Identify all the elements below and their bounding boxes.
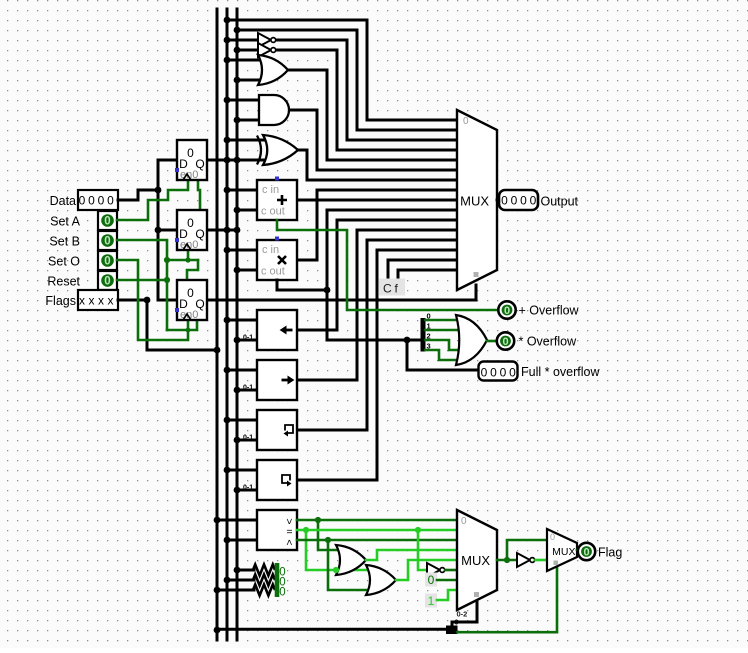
wire Flags to reg F D bbox=[118, 299, 147, 302]
svg-text:0: 0 bbox=[583, 547, 589, 559]
svg-text:Flag: Flag bbox=[598, 546, 622, 560]
wire pull common bar bbox=[275, 563, 280, 597]
node bus junction (237,490) bbox=[234, 487, 241, 494]
wire cmp gt branch to OR1b bbox=[318, 520, 340, 550]
wire NOT2 out to MUX in4 bbox=[276, 50, 456, 150]
wire reg F Q to MUX select bbox=[207, 299, 476, 302]
svg-text:c in: c in bbox=[262, 244, 279, 256]
multiplexer MUX-B bbox=[457, 510, 498, 619]
svg-text:+ Overflow: + Overflow bbox=[519, 304, 580, 318]
wire reg A pin2 to reg B top bbox=[198, 179, 200, 210]
node bus junction (227,230) bbox=[224, 227, 231, 234]
wire splitter bit1 bbox=[426, 329, 459, 332]
wire SHR out to MUX in12 bbox=[297, 230, 456, 380]
wire MUXC out bbox=[577, 550, 578, 551]
wire B to MUX in2 bbox=[237, 30, 456, 130]
svg-text:>: > bbox=[283, 518, 295, 524]
wire eq to NOT-b in bbox=[418, 530, 427, 570]
wire cmp eq to MUXB in2 bbox=[297, 529, 457, 532]
wire A to comparator B bbox=[227, 539, 257, 542]
wire Flags to F bus bbox=[147, 300, 217, 350]
wire F to comparator A bbox=[217, 519, 257, 522]
node bus junction (227,420) bbox=[224, 417, 231, 424]
wire B to ROL amount bbox=[237, 439, 257, 442]
svg-text:x: x bbox=[79, 294, 85, 308]
node bus junction (237,570) bbox=[234, 567, 241, 574]
output pin Flag bbox=[578, 543, 595, 560]
node bus junction (227,20) bbox=[224, 17, 231, 24]
svg-text:Set B: Set B bbox=[49, 235, 80, 249]
shifter SHL (shift left) bbox=[257, 310, 297, 350]
resistor pull R3 bbox=[253, 585, 275, 596]
svg-text:0: 0 bbox=[104, 256, 110, 268]
input pin Reset bbox=[98, 271, 117, 290]
svg-text:c out: c out bbox=[261, 206, 285, 218]
constant 0 bbox=[425, 573, 437, 587]
input pin Flags bbox=[78, 290, 118, 310]
wire A to SHL data bbox=[227, 319, 257, 322]
svg-text:Set O: Set O bbox=[48, 255, 80, 269]
node mult high tee bbox=[404, 337, 411, 344]
resistor pull R2 bbox=[253, 575, 275, 586]
node cmp gt tee bbox=[315, 517, 321, 523]
svg-text:0: 0 bbox=[490, 366, 497, 380]
node or1b input tee bbox=[333, 567, 339, 573]
svg-text:0: 0 bbox=[461, 516, 467, 527]
svg-text:c in: c in bbox=[262, 184, 279, 196]
node bus junction (227,540) bbox=[224, 537, 231, 544]
wire cmp gt to MUXB in1 bbox=[297, 519, 457, 522]
wire MUXB out bbox=[497, 559, 517, 562]
splitter S1 spine bbox=[421, 318, 426, 352]
node bus junction (237,440) bbox=[234, 437, 241, 444]
node bus junction (227,160) bbox=[224, 157, 231, 164]
svg-text:0: 0 bbox=[509, 366, 516, 380]
wire reg B clock riser bbox=[187, 251, 190, 260]
wire Data to registers D bbox=[118, 190, 158, 200]
wire MULT couthi to MUX in10 bbox=[327, 210, 456, 340]
or gate OR2b bbox=[366, 565, 396, 595]
node bus junction (227,250) bbox=[224, 247, 231, 254]
node bus junction (237,340) bbox=[234, 337, 241, 344]
svg-text:0-1: 0-1 bbox=[243, 335, 253, 342]
constant 1 bbox=[425, 594, 437, 608]
wire B to OR1 in2 bbox=[237, 79, 263, 82]
svg-text:C: C bbox=[383, 282, 392, 296]
wire A to SHR data bbox=[227, 369, 257, 372]
svg-text:Set A: Set A bbox=[50, 215, 81, 229]
node bus junction (227,40) bbox=[224, 37, 231, 44]
svg-text:0: 0 bbox=[104, 236, 110, 248]
wire B to AND1 in2 bbox=[237, 119, 260, 122]
wire NOT-b out to MUXB in6 bbox=[446, 569, 458, 572]
svg-text:x: x bbox=[108, 294, 114, 308]
wire OR1b out to MUXB in4 bbox=[366, 550, 457, 560]
wire cmp lt branch bbox=[328, 540, 368, 590]
and gate AND1 bbox=[259, 95, 289, 125]
output pin Output bbox=[499, 190, 538, 210]
wire ADD out to MUX in9 bbox=[297, 199, 456, 202]
svg-text:0-1: 0-1 bbox=[243, 385, 253, 392]
wire XOR1 out to MUX in7 bbox=[298, 150, 456, 180]
register A (D Q en0) bbox=[175, 140, 207, 181]
svg-text:Output: Output bbox=[541, 195, 579, 209]
node bus junction (237,270) bbox=[234, 267, 241, 274]
input pin Data bbox=[78, 190, 118, 210]
svg-text:0: 0 bbox=[187, 146, 194, 160]
node bus junction (237,210) bbox=[234, 207, 241, 214]
node bus junction (227,140) bbox=[224, 137, 231, 144]
inverter NOT2 bbox=[258, 43, 276, 57]
svg-text:MUX: MUX bbox=[461, 553, 490, 568]
splitter S2 blob bbox=[446, 626, 458, 635]
wire Set A to reg A clock bbox=[117, 181, 188, 220]
wire MULT cout join bbox=[277, 280, 327, 290]
inverter NOT-b bbox=[427, 563, 445, 577]
node bus junction (237,390) bbox=[234, 387, 241, 394]
wire A to OR1 in1 bbox=[227, 59, 263, 62]
wire SHL out to MUX in11 bbox=[297, 220, 456, 330]
wire bus B vertical (x=237) bbox=[236, 9, 239, 640]
svg-text:Flags: Flags bbox=[45, 294, 76, 308]
wire Set B branch to reg B clock bbox=[167, 259, 198, 262]
svg-text:0: 0 bbox=[88, 194, 95, 208]
svg-text:0-1: 0-1 bbox=[243, 485, 253, 492]
or gate OR-ovf bbox=[456, 315, 487, 365]
adder U-add bbox=[257, 177, 297, 221]
node green regB clock tee bbox=[185, 257, 190, 262]
output pin + Overflow bbox=[498, 301, 515, 318]
wire B to ROR amount bbox=[237, 489, 257, 492]
wire OR1 out to MUX in5 bbox=[288, 70, 456, 160]
comparator U-cmp bbox=[257, 510, 297, 550]
node bus junction (227,100) bbox=[224, 97, 231, 104]
wire select bus bottom bbox=[217, 628, 452, 631]
node D split reg A bbox=[155, 187, 162, 194]
wire A to ROR data bbox=[227, 469, 257, 472]
node mult cout junction bbox=[324, 287, 331, 294]
svg-text:0: 0 bbox=[500, 366, 507, 380]
svg-text:0: 0 bbox=[530, 194, 537, 208]
node bus junction (237,50) bbox=[234, 47, 241, 54]
register B (D Q en0) bbox=[175, 210, 207, 251]
multiplexer MUX-C bbox=[547, 529, 577, 571]
svg-text:0: 0 bbox=[98, 194, 105, 208]
wire D vertical bbox=[158, 160, 177, 300]
input pin Set A bbox=[98, 211, 117, 230]
wire mult high to Full overflow bbox=[407, 340, 479, 370]
wire const0 to MUXB in7 bbox=[437, 579, 457, 582]
node bus junction (237,120) bbox=[234, 117, 241, 124]
node bus junction (227,580) bbox=[224, 577, 231, 584]
wire reg A Q to bus and XOR1 in2 bbox=[207, 159, 265, 162]
wire bus F vertical (x=217) bbox=[216, 9, 219, 640]
svg-text:<: < bbox=[283, 539, 295, 545]
register F (D Q en0) bbox=[175, 280, 207, 321]
node bus junction (227,320) bbox=[224, 317, 231, 324]
svg-text:c out: c out bbox=[261, 266, 285, 278]
wire MUXB select bbox=[452, 601, 477, 629]
svg-text:=: = bbox=[286, 526, 292, 538]
wire B to ADD in2 bbox=[237, 209, 257, 212]
or gate OR1 bbox=[258, 55, 288, 85]
svg-text:0: 0 bbox=[279, 587, 285, 599]
multiplier U-mult bbox=[257, 237, 297, 281]
svg-text:0: 0 bbox=[502, 336, 508, 348]
node green regF clock tee bbox=[186, 328, 191, 333]
wire NOT-c out to MUXC in2 bbox=[536, 559, 548, 562]
wire A to XOR1 in1 bbox=[227, 139, 265, 142]
svg-text:x: x bbox=[89, 294, 95, 308]
xor gate XOR1 bbox=[257, 135, 298, 165]
svg-text:x: x bbox=[98, 294, 104, 308]
wire reg B Q to bus bbox=[207, 229, 237, 232]
node cmp lt tee bbox=[325, 537, 331, 543]
svg-text:0: 0 bbox=[504, 305, 510, 317]
svg-text:MUX: MUX bbox=[460, 194, 489, 209]
wire OR2b out to MUXB in5 bbox=[396, 560, 457, 580]
wire F to pull resistor 3 bbox=[217, 589, 254, 592]
node bus junction (227,470) bbox=[224, 467, 231, 474]
svg-text:Full * overflow: Full * overflow bbox=[521, 365, 600, 379]
multiplexer MUX-A bbox=[457, 110, 497, 290]
wire splitter bit2 bbox=[426, 340, 459, 350]
inverter NOT1 bbox=[258, 33, 276, 47]
wire B to SHL amount bbox=[237, 339, 257, 342]
wire A to ADD in1 bbox=[227, 189, 257, 192]
node flags split bbox=[144, 297, 151, 304]
svg-text:0: 0 bbox=[511, 194, 518, 208]
wire const1 to MUXB in8 bbox=[437, 590, 457, 600]
wire A to NOT1 in bbox=[227, 39, 258, 42]
svg-text:0: 0 bbox=[79, 194, 86, 208]
input pin Set B bbox=[98, 231, 117, 250]
svg-text:0: 0 bbox=[107, 194, 114, 208]
svg-text:0-2: 0-2 bbox=[457, 610, 468, 619]
svg-text:0: 0 bbox=[481, 366, 488, 380]
node muxb out tee bbox=[504, 557, 510, 563]
wire B to NOT2 in bbox=[237, 49, 258, 52]
shifter ROR (rotate right) bbox=[257, 460, 297, 500]
node bus junction (227,60) bbox=[224, 57, 231, 64]
svg-text:0: 0 bbox=[187, 286, 194, 300]
wire snake to reg F top bbox=[187, 260, 198, 280]
svg-text:0: 0 bbox=[550, 532, 555, 542]
node bus junction (227,370) bbox=[224, 367, 231, 374]
wire MULT out to MUX in8 bbox=[297, 190, 456, 260]
wire branch to MUXC in1 bbox=[507, 540, 547, 560]
output pin * Overflow bbox=[497, 332, 514, 349]
wire A to AND1 in1 bbox=[227, 99, 260, 102]
svg-text:Reset: Reset bbox=[47, 275, 80, 289]
resistor pull R1 bbox=[253, 565, 275, 576]
node green SetB junction bbox=[164, 257, 170, 263]
wire reg B D stub bbox=[158, 229, 177, 232]
svg-text:0: 0 bbox=[463, 116, 469, 127]
wire MUXC select bbox=[458, 566, 558, 632]
shifter SHR (shift right) bbox=[257, 360, 297, 400]
svg-text:0: 0 bbox=[455, 620, 459, 627]
wire reg A D stub bbox=[158, 159, 177, 162]
wire OR-ovf out bbox=[487, 340, 496, 343]
wire tunnel f to MUX in16 bbox=[398, 270, 456, 281]
node green Reset junction bbox=[164, 277, 170, 283]
wire A to pull resistor 2 bbox=[227, 579, 254, 582]
wire cmp eq branch bbox=[306, 530, 368, 570]
node bus junction (217,590) bbox=[214, 587, 221, 594]
wire ROL out to MUX in13 bbox=[297, 240, 456, 430]
wire MUX select stub bbox=[475, 285, 478, 300]
output pin Full * overflow bbox=[479, 362, 518, 381]
svg-text:0: 0 bbox=[501, 194, 508, 208]
wire Reset to reg F pin2 bbox=[167, 321, 197, 330]
wire splitter bit3 bbox=[426, 350, 459, 360]
wire B to MULT in2 bbox=[237, 269, 257, 272]
node cmp eq tee bbox=[303, 527, 309, 533]
wire MUX-A out bbox=[497, 199, 499, 202]
wire ROR out to MUX in14 bbox=[297, 250, 456, 480]
node eq to NOT tee bbox=[415, 527, 421, 533]
node bus junction (227,190) bbox=[224, 187, 231, 194]
node bus junction (217,630) bbox=[214, 627, 221, 634]
wire cmp lt to MUXB in3 bbox=[297, 539, 457, 542]
svg-text:* Overflow: * Overflow bbox=[519, 335, 578, 349]
node bus junction (237,80) bbox=[234, 77, 241, 84]
wire ADD cout to +Overflow bbox=[277, 220, 498, 310]
svg-text:0: 0 bbox=[428, 573, 435, 587]
node D split reg B bbox=[155, 227, 162, 234]
label background C f bbox=[379, 279, 405, 296]
svg-text:Data: Data bbox=[50, 194, 76, 208]
wire A to MULT in1 bbox=[227, 249, 257, 252]
svg-text:0: 0 bbox=[187, 216, 194, 230]
shifter ROL (rotate left) bbox=[257, 410, 297, 450]
node bus junction (237,30) bbox=[234, 27, 241, 34]
svg-text:1: 1 bbox=[428, 594, 435, 608]
wire Set O down bbox=[117, 260, 188, 340]
wire AND1 out to MUX in6 bbox=[289, 110, 456, 170]
wire splitter bit0 bbox=[426, 319, 459, 322]
input pin Set O bbox=[98, 251, 117, 270]
svg-text:0: 0 bbox=[104, 276, 110, 288]
node bus junction (237,160) bbox=[234, 157, 241, 164]
node bus junction (217,520) bbox=[214, 517, 221, 524]
wire bus A vertical (x=227) bbox=[226, 9, 229, 640]
node bus junction (237,230) bbox=[234, 227, 241, 234]
node bus junction (217,350) bbox=[214, 347, 221, 354]
svg-text:0-1: 0-1 bbox=[243, 435, 253, 442]
wire tunnel C to MUX in15 bbox=[388, 260, 456, 281]
svg-text:0: 0 bbox=[104, 216, 110, 228]
wire A to MUX in1 bbox=[227, 20, 456, 120]
inverter NOT-c bbox=[517, 553, 535, 567]
svg-text:0: 0 bbox=[520, 194, 527, 208]
svg-text:MUX: MUX bbox=[552, 546, 575, 558]
wire A to ROL data bbox=[227, 419, 257, 422]
wire NOT1 out to MUX in3 bbox=[276, 40, 456, 140]
or gate OR1b bbox=[336, 545, 366, 575]
wire Set B down bbox=[117, 240, 167, 330]
wire B to pull resistor 1 bbox=[237, 569, 254, 572]
wire Reset horizontal bbox=[117, 279, 167, 282]
wire B to SHR amount bbox=[237, 389, 257, 392]
